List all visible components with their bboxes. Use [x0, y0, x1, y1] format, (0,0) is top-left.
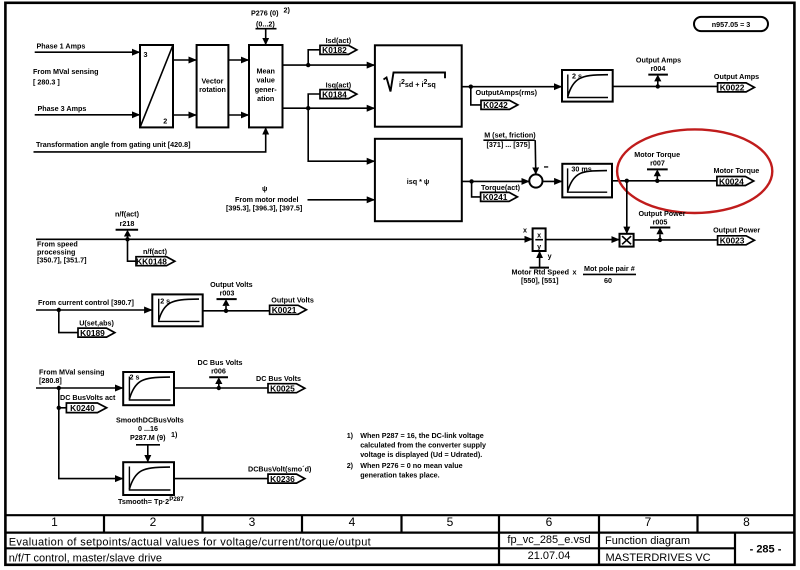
wire motor model to isq*psi — [308, 199, 375, 201]
svg-text:Function diagram: Function diagram — [605, 535, 690, 547]
svg-text:K0242: K0242 — [483, 100, 508, 110]
svg-text:From current control [390.7]: From current control [390.7] — [38, 298, 134, 307]
wire 3/2 to vector rotation (top) — [173, 59, 197, 61]
svg-text:K0241: K0241 — [483, 192, 508, 202]
block 3-to-2 phase converter — [140, 45, 173, 127]
wire 2s to K0022 — [613, 85, 718, 87]
node r005 junction — [658, 238, 662, 242]
monitor r004 — [636, 55, 681, 86]
svg-text:4: 4 — [349, 515, 356, 529]
svg-text:n/f(act): n/f(act) — [115, 210, 140, 219]
title block column numbers — [51, 515, 750, 529]
block x/y divider — [533, 228, 546, 251]
svg-text:KK0148: KK0148 — [136, 256, 167, 266]
note 2) — [347, 461, 463, 480]
svg-text:2): 2) — [347, 461, 354, 470]
svg-text:[ 280.3 ]: [ 280.3 ] — [33, 77, 60, 86]
svg-text:r004: r004 — [651, 64, 666, 73]
wire stub to K0189 — [59, 310, 78, 333]
svg-text:K0025: K0025 — [270, 384, 295, 394]
svg-text:K0189: K0189 — [80, 328, 105, 338]
svg-text:M (set, friction): M (set, friction) — [484, 131, 536, 140]
label P276 (0) 2) — [251, 6, 290, 29]
node Torque(act) junction — [469, 179, 473, 183]
wire summing circle to 30ms — [543, 180, 562, 182]
parameter stadium n957.05 = 3 — [694, 17, 768, 31]
svg-text:2 s: 2 s — [130, 373, 140, 382]
svg-text:r006: r006 — [211, 367, 226, 376]
connector K0242 — [481, 100, 518, 110]
svg-text:2: 2 — [150, 515, 157, 529]
svg-text:x: x — [537, 231, 541, 240]
svg-text:Transformation angle from gati: Transformation angle from gating unit [4… — [36, 140, 191, 149]
svg-text:0 ...16: 0 ...16 — [138, 424, 158, 433]
svg-text:Phase 1 Amps: Phase 1 Amps — [37, 42, 86, 51]
svg-text:From motor model: From motor model — [235, 195, 299, 204]
wire sqrt block to 2s smoothing — [462, 86, 562, 88]
svg-text:Motor Torque: Motor Torque — [634, 150, 680, 159]
svg-text:21.07.04: 21.07.04 — [528, 550, 571, 562]
connector K0025 — [268, 384, 305, 394]
svg-text:isq * ψ: isq * ψ — [407, 177, 430, 186]
svg-text:[550], [551]: [550], [551] — [521, 276, 559, 285]
wire x/y to multiplier — [546, 239, 620, 241]
svg-text:n/f(act): n/f(act) — [143, 247, 168, 256]
svg-text:Evaluation of setpoints/actual: Evaluation of setpoints/actual values fo… — [9, 536, 371, 548]
wire isq*psi to summing circle — [462, 180, 530, 182]
note 1) — [347, 431, 486, 459]
svg-text:2): 2) — [284, 6, 291, 15]
svg-text:r007: r007 — [650, 159, 665, 168]
wire vector rotation to mean value (bottom) — [228, 114, 249, 116]
block vector rotation — [197, 45, 229, 127]
summing circle — [529, 174, 542, 187]
svg-text:P276 (0): P276 (0) — [251, 9, 279, 18]
svg-text:K0021: K0021 — [272, 305, 297, 315]
block 2s smoothing (output volts) — [152, 294, 202, 326]
wire current control to 2s — [36, 309, 152, 311]
svg-text:OutputAmps(rms): OutputAmps(rms) — [476, 88, 538, 97]
node r007 junction — [655, 179, 659, 183]
block 30ms smoothing — [562, 164, 612, 198]
svg-text:[280.8]: [280.8] — [39, 376, 62, 385]
label M (set, friction) — [484, 131, 536, 149]
node r003 junction — [224, 309, 228, 313]
svg-text:From MVal sensing: From MVal sensing — [33, 67, 99, 76]
wire transformation angle to mean value block — [34, 127, 266, 151]
connector K0240 — [66, 403, 106, 413]
wire stub to K0182 — [308, 50, 320, 65]
svg-text:U(set,abs): U(set,abs) — [79, 319, 114, 328]
svg-text:generation takes place.: generation takes place. — [360, 470, 440, 479]
monitor r003 — [210, 280, 253, 311]
wire Phase 1 Amps input — [35, 51, 140, 53]
label From speed processing — [37, 239, 87, 264]
block 2s smoothing (output amps) — [562, 70, 613, 102]
node OutputAmps junction — [469, 85, 473, 89]
svg-text:1): 1) — [171, 430, 178, 439]
svg-text:Output Power: Output Power — [638, 209, 685, 218]
block Tsmooth smoothing — [123, 462, 174, 495]
svg-text:r218: r218 — [120, 219, 135, 228]
node r004 junction — [656, 84, 660, 88]
label From MVal sensing [280.3] — [33, 67, 99, 87]
svg-text:8: 8 — [743, 515, 750, 529]
svg-text:rotation: rotation — [199, 85, 226, 94]
svg-text:voltage is displayed (Ud = Udr: voltage is displayed (Ud = Udrated). — [360, 450, 482, 459]
svg-text:y: y — [537, 242, 541, 251]
connector K0236 — [268, 474, 305, 484]
svg-text:2 s: 2 s — [160, 297, 170, 306]
svg-text:Tsmooth= Tp·2P287: Tsmooth= Tp·2P287 — [118, 496, 184, 506]
wire stub to K0240 — [59, 407, 67, 409]
svg-text:60: 60 — [604, 276, 612, 285]
connector K0021 — [270, 305, 307, 315]
wire stub to K0242 — [471, 87, 481, 105]
monitor r005 — [638, 209, 685, 240]
svg-text:2 s: 2 s — [572, 72, 582, 81]
svg-text:DC Bus Volts: DC Bus Volts — [198, 358, 243, 367]
connector KK0148 — [136, 256, 175, 266]
connector K0184 — [320, 89, 357, 99]
svg-text:K0184: K0184 — [322, 89, 347, 99]
connector K0022 — [718, 83, 755, 93]
svg-text:K0024: K0024 — [719, 176, 744, 186]
svg-text:x: x — [573, 268, 577, 277]
svg-text:ation: ation — [257, 94, 274, 103]
svg-text:5: 5 — [447, 515, 454, 529]
svg-text:DC BusVolts act: DC BusVolts act — [60, 393, 116, 402]
svg-text:(0...2): (0...2) — [256, 19, 275, 28]
svg-text:gener-: gener- — [255, 85, 278, 94]
svg-text:Output Volts: Output Volts — [271, 296, 314, 305]
svg-text:1): 1) — [347, 431, 354, 440]
svg-text:[395.3], [396.3], [397.5]: [395.3], [396.3], [397.5] — [226, 204, 302, 213]
svg-text:7: 7 — [645, 515, 652, 529]
svg-text:[371] ... [375]: [371] ... [375] — [487, 140, 531, 149]
monitor r007 — [634, 150, 680, 181]
connector K0023 — [718, 236, 755, 246]
node r006 junction — [217, 386, 221, 390]
wire P287 into Tsmooth block — [136, 445, 160, 462]
label Mot pole pair # / 60 — [583, 264, 636, 285]
connector K0241 — [481, 192, 518, 202]
annotation red ellipse — [617, 129, 772, 213]
wire stub to KK0148 — [128, 239, 137, 261]
svg-text:i2sd + i2sq: i2sd + i2sq — [399, 79, 436, 89]
node DC BusVolts junction — [57, 386, 61, 390]
svg-text:DC Bus Volts: DC Bus Volts — [256, 374, 301, 383]
wire Tsmooth to K0236 — [174, 478, 268, 480]
monitor r218 — [115, 210, 140, 240]
node Isd junction — [306, 63, 310, 67]
svg-text:Motor Torque: Motor Torque — [714, 166, 760, 175]
label psi from motor model — [226, 184, 302, 213]
block isq*psi — [375, 139, 462, 221]
wire vector rotation to mean value (top) — [228, 59, 249, 61]
node Isq junction — [306, 106, 310, 110]
wire stub to K0241 — [472, 181, 481, 197]
wire mean value to sqrt block (Isd) — [283, 64, 375, 66]
svg-text:Phase 3 Amps: Phase 3 Amps — [38, 104, 87, 113]
svg-text:K0240: K0240 — [70, 403, 95, 413]
svg-text:Isd(act): Isd(act) — [326, 36, 352, 45]
wire 2s to K0021 — [203, 310, 270, 312]
svg-text:DCBusVolt(smo´d): DCBusVolt(smo´d) — [248, 464, 312, 473]
label SmoothDCBusVolts parameter — [116, 415, 184, 441]
wire branch down to Tsmooth — [59, 388, 123, 479]
node U(set,abs) junction — [57, 308, 61, 312]
node motor torque junction — [625, 179, 629, 183]
connector K0189 — [78, 328, 115, 338]
wire Isq branch down to isq*psi block — [308, 108, 375, 161]
svg-text:6: 6 — [546, 515, 553, 529]
svg-text:n/f/T control, master/slave dr: n/f/T control, master/slave drive — [9, 552, 162, 564]
svg-text:Output Volts: Output Volts — [210, 280, 253, 289]
svg-text:K0236: K0236 — [270, 474, 295, 484]
svg-text:value: value — [257, 76, 275, 85]
svg-text:- 285 -: - 285 - — [750, 544, 782, 556]
node r218 junction — [125, 237, 129, 241]
label Motor Rtd Speed [550],[551] — [512, 268, 570, 285]
svg-text:2: 2 — [163, 117, 167, 126]
wire speed processing line — [36, 238, 533, 240]
wire 2s to K0025 — [174, 387, 268, 389]
svg-text:calculated from the converter: calculated from the converter supply — [360, 441, 486, 450]
label From MVal sensing [280.8] — [39, 368, 105, 385]
svg-text:1: 1 — [51, 515, 58, 529]
svg-text:r005: r005 — [653, 218, 668, 227]
svg-text:[350.7], [351.7]: [350.7], [351.7] — [37, 256, 87, 265]
svg-text:P287.M (9): P287.M (9) — [130, 433, 166, 442]
svg-text:When P276 = 0 no mean value: When P276 = 0 no mean value — [360, 461, 462, 470]
svg-text:Mean: Mean — [257, 66, 275, 75]
wire mean value to sqrt block (Isq) — [283, 107, 375, 109]
wire 3/2 to vector rotation (bottom) — [173, 114, 197, 116]
svg-text:K0182: K0182 — [322, 45, 347, 55]
block sqrt(i2sd + i2sq) — [375, 45, 462, 126]
wire multiplier to K0023 — [634, 239, 718, 241]
wire MVal sensing to 2s DC bus — [36, 387, 123, 389]
block multiplier X — [620, 234, 634, 247]
svg-text:30 ms: 30 ms — [571, 164, 591, 173]
connector K0182 — [320, 45, 357, 55]
monitor r006 — [198, 358, 243, 388]
svg-text:fp_vc_285_e.vsd: fp_vc_285_e.vsd — [507, 534, 590, 546]
svg-text:When P287 = 16, the DC-link vo: When P287 = 16, the DC-link voltage — [360, 431, 484, 440]
svg-text:Mot pole pair #: Mot pole pair # — [584, 264, 635, 273]
svg-text:K0022: K0022 — [720, 83, 745, 93]
wire P276 parameter into mean value block — [256, 29, 277, 45]
label minus sign — [544, 166, 548, 167]
wire motor rtd speed into x/y — [530, 251, 549, 268]
svg-text:Output Amps: Output Amps — [714, 72, 759, 81]
svg-text:Output Amps: Output Amps — [636, 55, 681, 64]
svg-text:Torque(act): Torque(act) — [481, 183, 521, 192]
svg-text:Output Power: Output Power — [713, 226, 760, 235]
wire 30ms to K0024 — [612, 180, 717, 182]
svg-text:x: x — [523, 226, 527, 235]
svg-text:r003: r003 — [220, 288, 235, 297]
wire Phase 3 Amps input — [35, 114, 140, 116]
block 2s smoothing (DC bus) — [123, 372, 174, 405]
svg-text:K0023: K0023 — [720, 236, 745, 246]
svg-text:3: 3 — [144, 50, 148, 59]
wire M(set) into summing circle — [483, 140, 535, 174]
wire stub to K0184 — [308, 94, 320, 108]
svg-text:y: y — [548, 252, 552, 261]
svg-text:3: 3 — [249, 515, 256, 529]
svg-text:n957.05 = 3: n957.05 = 3 — [712, 20, 751, 29]
connector K0024 — [717, 176, 754, 186]
svg-text:MASTERDRIVES VC: MASTERDRIVES VC — [606, 552, 711, 564]
block mean value generation — [249, 45, 283, 127]
svg-text:Isq(act): Isq(act) — [326, 80, 352, 89]
title block table lines — [5, 515, 796, 565]
svg-text:ψ: ψ — [262, 184, 267, 193]
wire torque branch down to multiplier — [626, 181, 628, 234]
